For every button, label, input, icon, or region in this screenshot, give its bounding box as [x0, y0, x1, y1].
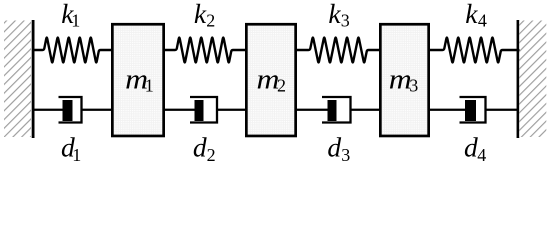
label k1	[61, 0, 80, 30]
svg-text:4: 4	[478, 10, 487, 30]
svg-text:k: k	[194, 0, 207, 29]
svg-text:2: 2	[206, 10, 215, 30]
wire rod left d3	[296, 109, 332, 111]
damper d2 cup	[190, 97, 217, 123]
svg-text:1: 1	[145, 76, 154, 96]
svg-text:4: 4	[477, 145, 486, 165]
label m3	[389, 65, 419, 96]
wire rod left d2	[164, 109, 200, 111]
label m2	[257, 65, 287, 96]
right wall line	[517, 20, 520, 138]
label d1	[61, 132, 81, 166]
mass m3	[380, 24, 428, 136]
spring k3	[296, 38, 380, 63]
label k2	[194, 0, 215, 30]
svg-text:k: k	[328, 0, 341, 29]
damper d3 piston	[328, 100, 337, 121]
svg-text:3: 3	[341, 10, 350, 30]
spring k2	[164, 38, 246, 63]
label k4	[465, 0, 487, 30]
left wall line	[32, 20, 35, 138]
damper d4	[430, 97, 519, 123]
label d3	[327, 132, 350, 166]
damper d4 piston	[465, 100, 476, 121]
right wall hatch	[519, 21, 546, 138]
wire rod right d3	[350, 109, 381, 111]
svg-text:2: 2	[207, 145, 216, 165]
label m1	[125, 65, 154, 96]
svg-text:d: d	[327, 132, 341, 163]
wire rod left d1	[33, 109, 68, 111]
svg-text:d: d	[464, 132, 478, 163]
svg-text:3: 3	[341, 145, 350, 165]
wire rod right d1	[81, 109, 113, 111]
damper d3	[296, 97, 380, 123]
damper d1	[33, 97, 112, 123]
svg-text:3: 3	[409, 76, 418, 96]
damper d2	[164, 97, 246, 123]
label d2	[193, 132, 216, 166]
wire rod right d2	[216, 109, 246, 111]
mass m1	[112, 24, 163, 136]
damper d4 cup	[460, 97, 486, 123]
label k3	[328, 0, 349, 30]
wire rod right d4	[485, 109, 519, 111]
left wall hatch	[4, 21, 31, 138]
svg-text:k: k	[465, 0, 478, 29]
label d4	[464, 132, 486, 166]
mass m2	[246, 24, 295, 136]
wire rod left d4	[430, 109, 470, 111]
damper d3 cup	[322, 97, 351, 123]
spring k1	[33, 38, 112, 63]
spring k4	[430, 38, 519, 63]
damper d2 piston	[195, 100, 204, 121]
damper d1 piston	[63, 100, 73, 121]
svg-text:2: 2	[277, 76, 286, 96]
svg-text:1: 1	[72, 145, 81, 165]
damper d1 cup	[59, 97, 82, 123]
svg-text:d: d	[193, 132, 207, 163]
svg-text:1: 1	[71, 10, 80, 30]
